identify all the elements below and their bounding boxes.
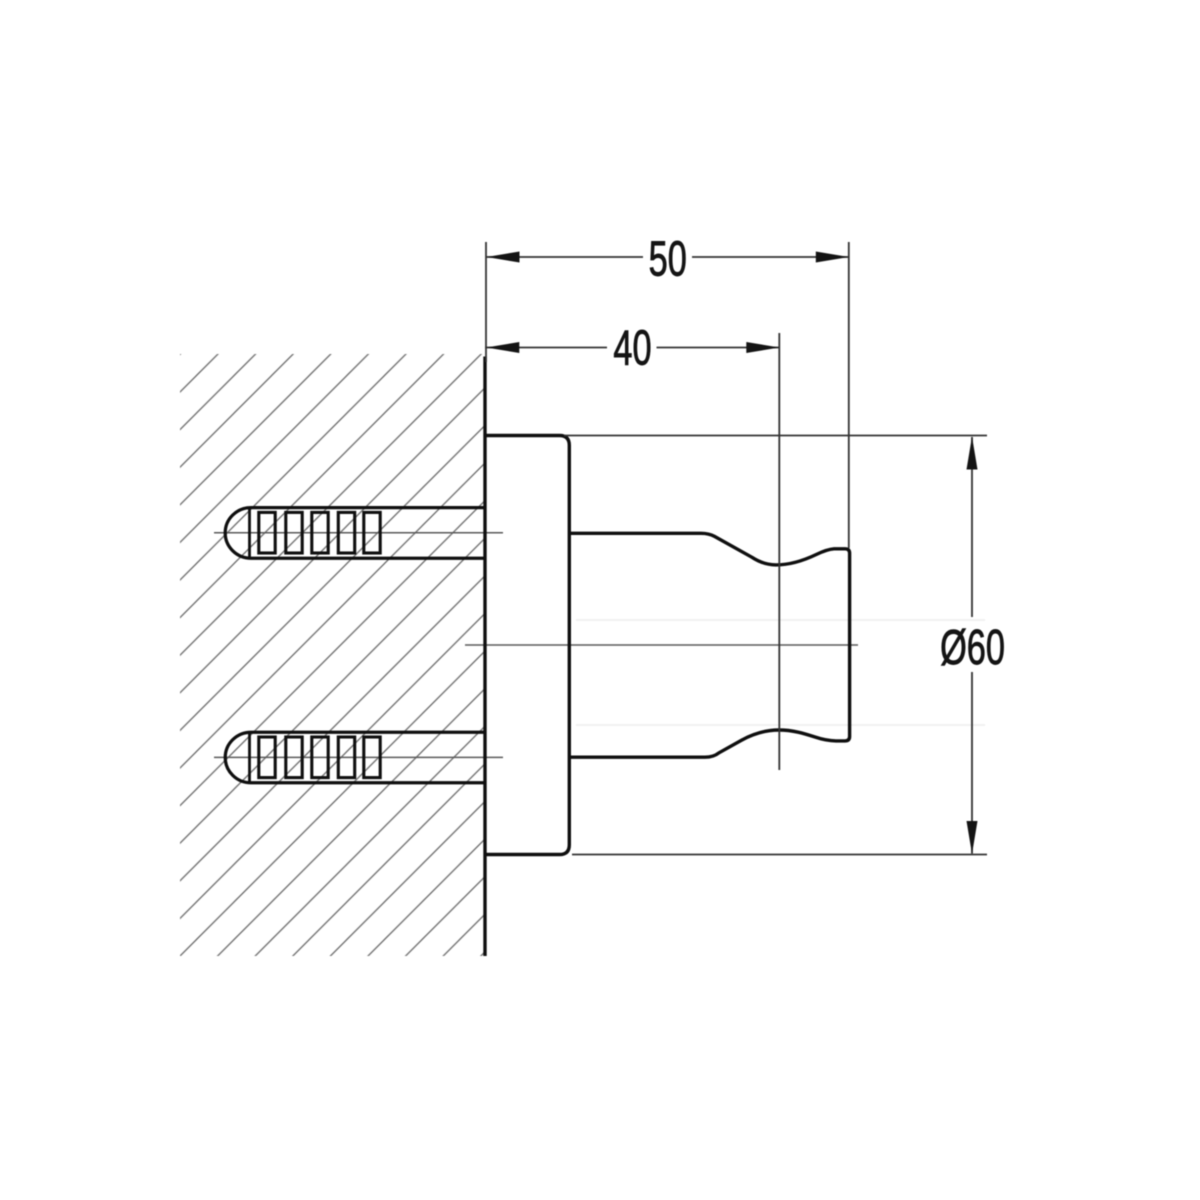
wall plug top slot 4 [338,512,354,553]
dimension 40 arrow left [486,342,519,353]
top screw centerline [214,532,503,534]
wall plug top slot 1 [259,512,275,553]
svg-text:Ø60: Ø60 [940,620,1005,674]
wall plug top slot 2 [286,512,302,553]
holder body profile [570,533,850,757]
svg-text:40: 40 [613,320,651,374]
extension line top for D60 [564,435,987,437]
extension line left (wall face, for 50/40) [485,242,487,362]
wall plug bottom slot 4 [338,737,354,778]
wall plug bottom slot 1 [259,737,275,778]
bottom screw centerline [214,756,503,758]
ghost line lower [576,724,985,726]
wall plug bottom slot 2 [286,737,302,778]
dimension D60 arrow bottom [967,821,978,854]
dimension 40 line [485,347,607,349]
extension line bottom for D60 [572,854,987,856]
dimension 40 arrow right [746,342,779,353]
wall plug bottom outline [225,732,485,783]
wall plug top slot 3 [312,512,328,553]
extension line right for 40 [778,333,780,770]
wall plug bottom slot 3 [312,737,328,778]
wall plug top outline [225,508,485,559]
mounting flange [485,436,569,855]
dimension D60 arrow top [967,437,978,470]
svg-text:50: 50 [649,231,687,285]
extension line right for 50 [848,242,850,548]
wall plug top cap line [248,508,251,559]
wall plug bottom cap line [248,732,251,783]
ghost line upper [576,619,985,621]
dimension 50 arrow left [487,252,520,263]
main centerline [465,644,858,646]
dimension 50 line [486,256,643,258]
wall hatching [180,354,485,956]
dimension 50 arrow right [816,252,849,263]
wall plug top slot 5 [364,512,380,553]
dimension D60 line [971,437,973,617]
wall face line [483,357,486,957]
wall plug bottom slot 5 [364,737,380,778]
